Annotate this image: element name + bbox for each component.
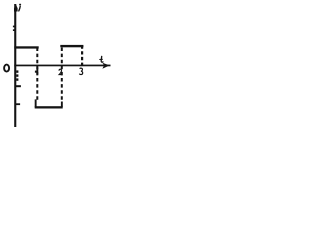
i-axis arrowhead: [14, 4, 18, 11]
high segment t=0..1 (solid): [14, 46, 38, 48]
tick label 2: [59, 69, 62, 74]
i-axis tick at -2: [15, 103, 20, 105]
axis label i: [19, 4, 21, 6]
i-axis tick at -1: [15, 85, 21, 87]
low segment t=1..2 (solid): [35, 106, 63, 108]
dashed vertical at t=1: [36, 48, 38, 101]
dashed nubs right of axis below origin: [16, 70, 18, 72]
tick label 3: [79, 68, 82, 74]
axis label t: [101, 56, 103, 62]
i-axis (vertical axis line): [14, 4, 16, 127]
origin label O: [4, 65, 9, 72]
tiny left nubs on i-axis: [13, 26, 15, 28]
dashed vertical at t=2: [61, 48, 63, 101]
t-axis arrowhead: [102, 63, 109, 69]
bottom-right corner nub: [61, 102, 63, 108]
t-axis (horizontal axis line): [14, 65, 110, 67]
tick label 1: [36, 67, 38, 74]
dashed vertical at t=3: [81, 46, 83, 67]
dashed high segment t=2..3 (appears nearly solid in scan): [60, 45, 83, 47]
bottom-left corner (solid): [35, 99, 37, 107]
